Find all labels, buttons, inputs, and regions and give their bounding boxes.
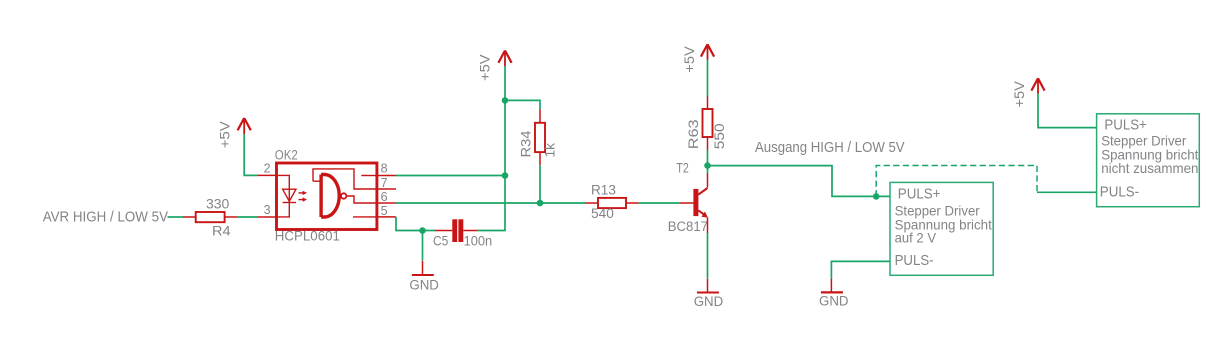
svg-text:5: 5 [381,204,388,218]
pin 7 stub [377,188,396,190]
+5V supply P2 (center rail) [478,51,512,82]
frame box SV2 (Stepper Driver, right) [1097,114,1200,207]
frame box SV1 (Stepper Driver, left) [890,182,993,275]
LED cathode bar [283,202,296,204]
svg-text:GND: GND [819,294,849,309]
wire R34 bottom to output net [539,165,541,203]
ground GND (below OK2) [409,261,439,293]
capacitor C5 100n [433,219,492,248]
junction rail/R34 branch [502,97,509,104]
wire pin5 to C5 / GND node [396,217,423,231]
resistor R4 [183,197,237,239]
inversion bubble [341,193,346,198]
svg-text:nicht zusammen: nicht zusammen [1101,160,1198,176]
base stub [680,202,693,204]
base bar [693,189,698,216]
svg-text:GND: GND [694,294,724,309]
svg-text:+5V: +5V [1012,81,1027,107]
svg-text:AVR HIGH / LOW 5V: AVR HIGH / LOW 5V [43,210,169,226]
wire pin6 output net [396,202,585,204]
pin 8 stub [377,175,396,177]
LED D1 triangle [283,189,296,201]
optocoupler OK2 HCPL0601 [258,147,396,243]
svg-text:100n: 100n [464,233,493,248]
svg-text:8: 8 [381,162,388,176]
svg-text:C5: C5 [433,233,448,248]
junction R34/output [537,200,544,207]
wire left box PULS- to GND [831,261,890,278]
wire AVR label to R4 [168,216,184,218]
ground GND (below left box) [819,279,849,309]
resistor R34 1k [518,109,557,165]
wire +5V to R63 [707,60,709,97]
svg-text:+5V: +5V [217,121,232,148]
resistor R13 540 [585,182,639,221]
junction Ausgang/dashed branch [873,193,880,200]
pin 5 stub [377,216,396,218]
svg-text:+5V: +5V [682,46,697,72]
svg-text:PULS+: PULS+ [898,187,941,203]
dashed wire to right box PULS- [876,166,1037,197]
svg-text:R13: R13 [591,182,616,197]
gate output to pin 6 [346,196,377,203]
+5V supply P3 (above R63) [682,44,714,72]
svg-text:+5V: +5V [478,54,493,81]
pin 6 stub [377,202,396,204]
enable line to pin 7 [313,169,377,189]
OK2 body box [277,163,377,230]
svg-text:1k: 1k [542,143,557,158]
wire T2 emitter to GND [707,233,709,278]
wire R13 to T2 base [639,202,680,204]
svg-text:330: 330 [206,197,229,212]
wire +5V to right box PULS+ [1038,94,1097,128]
svg-text:PULS-: PULS- [895,253,934,269]
wire +5V rail down to C5 [477,66,505,231]
pin 5 inner stub [353,216,377,218]
svg-text:GND: GND [409,277,439,292]
svg-text:7: 7 [381,176,388,190]
svg-text:540: 540 [591,206,614,221]
wire +5V to pin2 [244,134,258,175]
wire dashed end to right box PULS- [1037,191,1097,193]
svg-text:550: 550 [712,123,727,149]
svg-text:R34: R34 [518,130,533,158]
emitter diagonal with arrow [698,210,705,215]
svg-text:PULS+: PULS+ [1104,118,1146,134]
wire junction down to GND [422,231,424,261]
junction collector/R63/Ausgang [704,162,711,169]
pin 8 inner stub [361,175,377,177]
svg-text:R63: R63 [686,119,701,149]
svg-text:6: 6 [381,190,388,204]
svg-text:R4: R4 [212,224,231,239]
svg-text:T2: T2 [676,161,688,176]
+5V supply P1 (left, above OK2) [217,118,250,148]
wire R4 to pin3 [237,216,258,218]
wire Ausgang net to left box PULS+ [708,166,891,197]
wire R63 to collector junction [707,150,709,174]
collector diagonal [698,188,707,195]
junction pin5/C5/GND [419,227,426,234]
wire pin8 to +5V rail [396,175,506,177]
svg-text:auf 2 V: auf 2 V [895,229,937,245]
svg-text:BC817: BC817 [668,219,708,234]
svg-text:3: 3 [264,203,271,217]
wire junction to C5 [423,230,436,232]
svg-text:PULS-: PULS- [1100,184,1140,200]
+5V supply P4 (top right) [1012,78,1045,107]
ground GND (below T2) [694,279,724,310]
svg-text:Ausgang HIGH / LOW 5V: Ausgang HIGH / LOW 5V [755,140,905,156]
pin 3 stub [258,216,277,218]
svg-text:OK2: OK2 [275,147,298,162]
wire branch to R34 top [505,100,540,109]
LED input path [278,175,289,217]
pin 2 stub [258,174,277,176]
transistor T2 BC817 [668,161,708,235]
svg-text:2: 2 [264,162,271,176]
light emission arrows [299,191,308,195]
junction pin8/+5V [502,172,509,179]
resistor R63 550 [686,97,727,151]
NAND gate body [321,175,339,218]
